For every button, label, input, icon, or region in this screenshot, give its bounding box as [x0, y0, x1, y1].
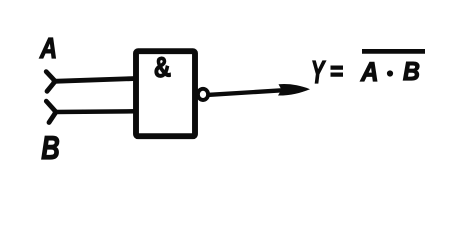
- nand gate U1 body: [136, 51, 195, 136]
- svg-text:A: A: [39, 33, 57, 65]
- AND dot operator: [387, 70, 393, 76]
- svg-text:Y: Y: [311, 54, 326, 90]
- wire output: [210, 90, 285, 95]
- equals sign: [331, 68, 344, 75]
- svg-text:B: B: [403, 56, 420, 86]
- inversion bubble on output: [198, 89, 208, 100]
- svg-text:B: B: [41, 129, 60, 166]
- input connector chevron B: [46, 101, 56, 122]
- wire input B: [55, 109, 136, 114]
- wire input A: [54, 79, 136, 82]
- overline (NOT bar): [362, 49, 425, 54]
- arrowhead on output wire: [278, 84, 310, 95]
- svg-text:&: &: [152, 51, 171, 84]
- input connector chevron A: [46, 72, 55, 92]
- svg-text:A: A: [360, 57, 378, 87]
